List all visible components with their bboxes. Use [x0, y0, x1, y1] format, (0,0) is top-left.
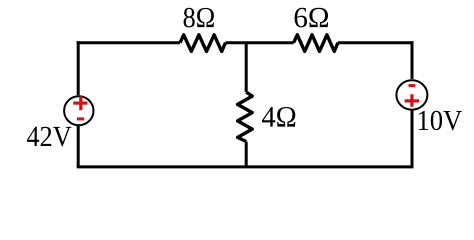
wire: bottom rail	[77, 165, 414, 168]
wire: top-left segment from left corner to R1	[78, 41, 180, 43]
V2 minus polarity mark	[409, 84, 416, 87]
V1 minus polarity mark	[77, 117, 84, 120]
label 6&#937; for R2	[295, 8, 328, 28]
resistor R1 8ohm (top left zigzag)	[180, 35, 226, 52]
label 10V for V2	[419, 111, 462, 131]
wire: middle branch upper stub (top node to R3)	[245, 43, 248, 92]
label 42V for V1	[27, 127, 72, 147]
label 4&#937; for R3	[262, 107, 295, 127]
voltage source V1 circle	[64, 96, 93, 125]
wire: right branch upper stub (corner to source V2)	[411, 41, 414, 79]
label 8&#937; for R1	[184, 8, 214, 28]
wire: top middle segment between R1 and R2 over node	[226, 41, 294, 44]
wire: top-right segment from R2 to right corner	[338, 41, 412, 43]
wire: right branch lower stub (source V2 to bottom corner)	[411, 111, 414, 167]
V1 plus polarity mark	[73, 96, 87, 110]
V2 plus polarity mark	[405, 94, 420, 107]
voltage source V2 circle	[396, 80, 427, 109]
wire: left branch upper stub (corner to source V1)	[77, 41, 80, 95]
wire: middle branch lower stub (R3 to bottom rail)	[245, 142, 248, 167]
wire: left branch lower stub (source V1 to bottom corner)	[77, 126, 80, 167]
resistor R2 6ohm (top right zigzag)	[294, 35, 338, 52]
resistor R3 4ohm (middle vertical zigzag)	[238, 92, 253, 142]
